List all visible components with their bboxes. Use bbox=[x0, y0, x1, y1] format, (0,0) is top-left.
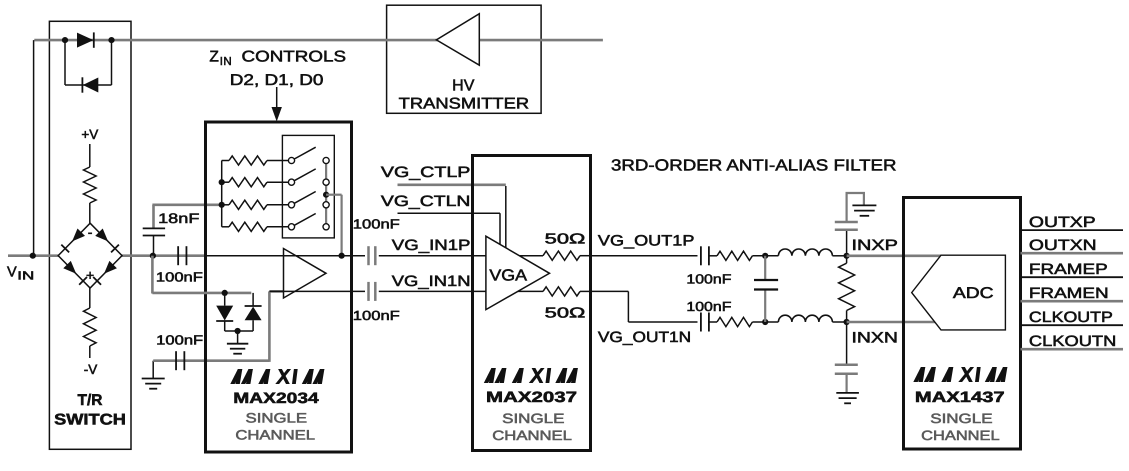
label CHANNEL 2034 bbox=[235, 427, 315, 442]
capacitor shunt bbox=[754, 256, 778, 322]
resistor filter P bbox=[717, 251, 752, 260]
svg-text:V: V bbox=[7, 265, 17, 281]
wire pin OUTXP bbox=[1021, 229, 1124, 231]
wire VG_CTLP bbox=[398, 185, 506, 248]
label ZIN CONTROLS bbox=[209, 49, 346, 69]
svg-text:VGA: VGA bbox=[489, 268, 527, 285]
wire pin OUTXN bbox=[1021, 252, 1124, 255]
node switch bus out bbox=[323, 192, 329, 198]
node diode bottom bbox=[235, 328, 241, 334]
svg-text:D2, D1, D0: D2, D1, D0 bbox=[230, 72, 324, 89]
label CLKOUTP bbox=[1029, 309, 1113, 326]
svg-text:VG_OUT1N: VG_OUT1N bbox=[598, 329, 691, 346]
label VG_OUT1N bbox=[598, 329, 691, 346]
ground INXN bbox=[836, 393, 859, 403]
label INXP bbox=[852, 237, 898, 254]
wire +V stub bbox=[89, 144, 91, 167]
svg-text:CLKOUTP: CLKOUTP bbox=[1029, 309, 1113, 326]
wire pin CLKOUTN bbox=[1021, 348, 1124, 351]
label 18nF bbox=[158, 211, 199, 226]
box MAX2034 bbox=[206, 122, 352, 452]
wire INXN to ADC bbox=[847, 321, 941, 324]
wire VG_OUT1P bbox=[592, 255, 698, 257]
wire INXP cap stub bbox=[846, 230, 848, 256]
wire 18nF branch bbox=[152, 205, 221, 256]
node filter N bbox=[762, 319, 768, 325]
label VGA bbox=[489, 268, 527, 285]
svg-text:VG_OUT1P: VG_OUT1P bbox=[598, 233, 695, 250]
svg-text:100nF: 100nF bbox=[353, 308, 400, 323]
logo MAXIM 2034 bbox=[230, 369, 324, 384]
wire pin FRAMEN bbox=[1021, 300, 1124, 303]
wire to bridge top bbox=[89, 203, 91, 224]
wire cap-res N bbox=[709, 321, 717, 323]
capacitor 100nF filter P bbox=[701, 246, 709, 265]
svg-text:MAX1437: MAX1437 bbox=[915, 389, 1005, 406]
wire MAX2034 amp in N bbox=[269, 290, 365, 292]
svg-text:VG_CTLP: VG_CTLP bbox=[381, 164, 471, 181]
switch bank contacts bbox=[288, 147, 329, 230]
svg-text:SINGLE: SINGLE bbox=[502, 411, 564, 426]
label VG_CTLN bbox=[381, 193, 471, 210]
svg-text:VG_IN1P: VG_IN1P bbox=[392, 237, 471, 254]
label CHANNEL 1437 bbox=[921, 428, 1000, 443]
node limiter right bbox=[108, 37, 114, 43]
node VIN junction bbox=[30, 253, 36, 259]
label D2 D1 D0 bbox=[230, 72, 324, 89]
wire bridge bottom stub bbox=[89, 288, 91, 308]
wire res-node N bbox=[752, 321, 778, 323]
arrow ZIN into MAX2034 bbox=[272, 87, 282, 122]
label MAX1437 bbox=[915, 389, 1005, 406]
label +V bbox=[81, 127, 98, 142]
svg-text:CHANNEL: CHANNEL bbox=[492, 428, 572, 443]
label 50ohm top bbox=[545, 232, 586, 248]
node limiter left bbox=[62, 37, 68, 43]
inductor filter N bbox=[778, 315, 832, 322]
wire lower cap bbox=[153, 291, 284, 378]
label 50ohm bottom bbox=[545, 306, 586, 322]
label TRANSMITTER bbox=[399, 96, 529, 113]
inductor filter P bbox=[778, 249, 832, 256]
capacitor 18nF bbox=[143, 228, 165, 235]
label SINGLE 2037 bbox=[502, 411, 564, 426]
capacitor 100nF IN1P bbox=[369, 246, 376, 265]
wire switch bus right bbox=[325, 164, 327, 224]
svg-text:100nF: 100nF bbox=[353, 217, 400, 232]
svg-text:SWITCH: SWITCH bbox=[54, 412, 126, 429]
capacitor 100nF IN1N bbox=[369, 282, 376, 301]
wire ind-INXN bbox=[832, 321, 846, 323]
logo MAXIM 2037 bbox=[484, 368, 578, 383]
switch bank box bbox=[282, 135, 334, 238]
label INXN bbox=[852, 330, 898, 347]
wire diode gnd stub bbox=[237, 331, 239, 343]
wire diode legs bbox=[225, 293, 253, 331]
label SWITCH bbox=[54, 412, 126, 429]
svg-text:100nF: 100nF bbox=[156, 333, 203, 348]
capacitor INXP bbox=[835, 222, 858, 230]
wire res-node P bbox=[752, 255, 778, 257]
svg-text:50Ω: 50Ω bbox=[545, 232, 586, 248]
svg-text:SINGLE: SINGLE bbox=[246, 410, 308, 425]
svg-text:100nF: 100nF bbox=[686, 272, 731, 287]
wire INXP to ADC bbox=[847, 255, 941, 258]
svg-text:100nF: 100nF bbox=[686, 299, 731, 314]
label VG_OUT1P bbox=[598, 233, 695, 250]
svg-text:OUTXP: OUTXP bbox=[1029, 214, 1096, 231]
wire VGA out P bbox=[474, 255, 592, 257]
wire resistor bus left bbox=[221, 161, 223, 227]
ground lower left bbox=[142, 379, 165, 389]
HV transmitter amplifier bbox=[436, 14, 479, 65]
ground clamp bbox=[227, 344, 248, 354]
T/R switch box bbox=[49, 21, 131, 449]
label 100nF IN1P bbox=[353, 217, 400, 232]
node INXN bbox=[844, 319, 850, 325]
node INXP bbox=[844, 253, 850, 259]
wire ind-INXP bbox=[832, 255, 846, 257]
label CLKOUTN bbox=[1029, 333, 1116, 350]
svg-text:50Ω: 50Ω bbox=[545, 306, 586, 322]
svg-text:FRAMEP: FRAMEP bbox=[1029, 261, 1108, 278]
label ADC bbox=[953, 285, 994, 302]
label VIN bbox=[7, 265, 34, 283]
node bus row3 bbox=[219, 202, 225, 208]
label T/R bbox=[78, 392, 103, 409]
label VG_CTLP bbox=[381, 164, 471, 181]
label VG_IN1N bbox=[392, 273, 471, 290]
resistor ZIN R2 bbox=[222, 178, 289, 187]
svg-text:CHANNEL: CHANNEL bbox=[235, 427, 315, 442]
label 100nF filter N bbox=[686, 299, 731, 314]
wire pin FRAMEP bbox=[1021, 276, 1124, 278]
node amp out bbox=[339, 253, 345, 259]
label MAX2034 bbox=[233, 390, 319, 407]
diode clamp down bbox=[216, 306, 233, 321]
wire pin CLKOUTP bbox=[1021, 324, 1124, 326]
node main junction bbox=[150, 253, 156, 259]
wire MAX2034 amp in P bbox=[206, 255, 366, 257]
svg-text:MAX2034: MAX2034 bbox=[233, 390, 319, 407]
diode clamp up bbox=[245, 306, 262, 320]
svg-text:VG_IN1N: VG_IN1N bbox=[392, 273, 471, 290]
logo MAXIM 1437 bbox=[913, 367, 1007, 382]
svg-text:OUTXN: OUTXN bbox=[1029, 237, 1097, 254]
wire VGA out N bbox=[474, 290, 592, 292]
svg-text:VG_CTLN: VG_CTLN bbox=[381, 193, 471, 210]
svg-text:T/R: T/R bbox=[78, 392, 103, 409]
label 100nF IN1N bbox=[353, 308, 400, 323]
label FRAMEP bbox=[1029, 261, 1108, 278]
node bus row2 bbox=[219, 179, 225, 185]
HV transmitter box bbox=[387, 5, 541, 113]
wire top HV line bbox=[34, 39, 603, 42]
wire cap-res P bbox=[709, 255, 717, 257]
svg-text:100nF: 100nF bbox=[156, 270, 203, 285]
wire VIN riser bbox=[33, 40, 35, 256]
resistor +V bbox=[84, 167, 97, 203]
wire limiter loop bbox=[65, 40, 112, 85]
label OUTXP bbox=[1029, 214, 1096, 231]
svg-text:SINGLE: SINGLE bbox=[930, 411, 992, 426]
svg-text:FRAMEN: FRAMEN bbox=[1029, 285, 1109, 302]
svg-text:CONTROLS: CONTROLS bbox=[242, 49, 347, 66]
VGA amplifier bbox=[486, 236, 550, 309]
svg-text:-: - bbox=[88, 224, 93, 240]
label 100nF filter P bbox=[686, 272, 731, 287]
op-amp MAX2034 bbox=[284, 249, 327, 299]
label HV bbox=[452, 78, 475, 95]
label 3RD-ORDER ANTI-ALIAS FILTER bbox=[611, 158, 897, 175]
svg-text:HV: HV bbox=[452, 78, 475, 95]
svg-text:CLKOUTN: CLKOUTN bbox=[1029, 333, 1116, 350]
capacitor 100nF filter N bbox=[701, 313, 709, 332]
node filter P bbox=[762, 253, 768, 259]
wire switch out bbox=[326, 195, 342, 256]
label -V bbox=[84, 362, 98, 377]
resistor 50ohm N bbox=[543, 287, 580, 296]
wire VIN horizontal bbox=[8, 254, 206, 257]
svg-text:+V: +V bbox=[81, 127, 98, 142]
svg-text:IN: IN bbox=[220, 56, 232, 68]
svg-text:IN: IN bbox=[17, 269, 34, 283]
resistor 50ohm P bbox=[543, 251, 580, 260]
wire -V stub bbox=[89, 346, 91, 358]
resistor ZIN R3 bbox=[222, 200, 289, 209]
ground INXP bbox=[852, 205, 876, 215]
wire INXN gnd stub bbox=[845, 374, 847, 393]
svg-text:CHANNEL: CHANNEL bbox=[921, 428, 1000, 443]
svg-text:INXN: INXN bbox=[852, 330, 898, 347]
wire INXN cap stub bbox=[846, 322, 848, 365]
resistor filter N bbox=[717, 317, 752, 326]
resistor INX term bbox=[839, 256, 855, 322]
svg-text:+: + bbox=[86, 267, 94, 283]
svg-text:ADC: ADC bbox=[953, 285, 994, 302]
diode limiter bottom bbox=[82, 77, 98, 92]
svg-text:-V: -V bbox=[84, 362, 98, 377]
resistor ZIN R4 bbox=[222, 222, 289, 231]
capacitor INXN bbox=[835, 365, 858, 374]
svg-text:MAX2037: MAX2037 bbox=[486, 389, 577, 406]
svg-text:3RD-ORDER ANTI-ALIAS FILTER: 3RD-ORDER ANTI-ALIAS FILTER bbox=[611, 158, 897, 175]
capacitor 100nF lower bbox=[176, 351, 184, 370]
diode limiter top bbox=[77, 32, 94, 47]
label 100nF lower bbox=[156, 333, 203, 348]
svg-text:Z: Z bbox=[209, 49, 218, 66]
svg-text:18nF: 18nF bbox=[158, 211, 199, 226]
label SINGLE 2034 bbox=[246, 410, 308, 425]
svg-text:INXP: INXP bbox=[852, 237, 898, 254]
wire VG_IN1N bbox=[379, 290, 474, 292]
node diode top bbox=[222, 290, 228, 296]
label VG_IN1P bbox=[392, 237, 471, 254]
resistor ZIN R1 bbox=[222, 156, 289, 165]
svg-text:TRANSMITTER: TRANSMITTER bbox=[399, 96, 529, 113]
label 100nF main bbox=[156, 270, 203, 285]
label SINGLE 1437 bbox=[930, 411, 992, 426]
ADC block bbox=[912, 255, 1006, 330]
wire VG_CTLN bbox=[398, 213, 501, 244]
wire VG_IN1P bbox=[379, 255, 474, 257]
label CHANNEL 2037 bbox=[492, 428, 572, 443]
label MAX2037 bbox=[486, 389, 577, 406]
resistor -V bbox=[84, 308, 97, 346]
label OUTXN bbox=[1029, 237, 1097, 254]
wire VG_OUT1N bbox=[592, 291, 698, 322]
wire INXP gnd jog bbox=[847, 193, 864, 222]
box MAX1437 bbox=[904, 198, 1021, 450]
box MAX2037 bbox=[473, 156, 591, 451]
capacitor C 100nF main bbox=[178, 246, 186, 265]
diode bridge bbox=[58, 223, 122, 288]
wire diode rail bbox=[152, 256, 251, 294]
label FRAMEN bbox=[1029, 285, 1109, 302]
